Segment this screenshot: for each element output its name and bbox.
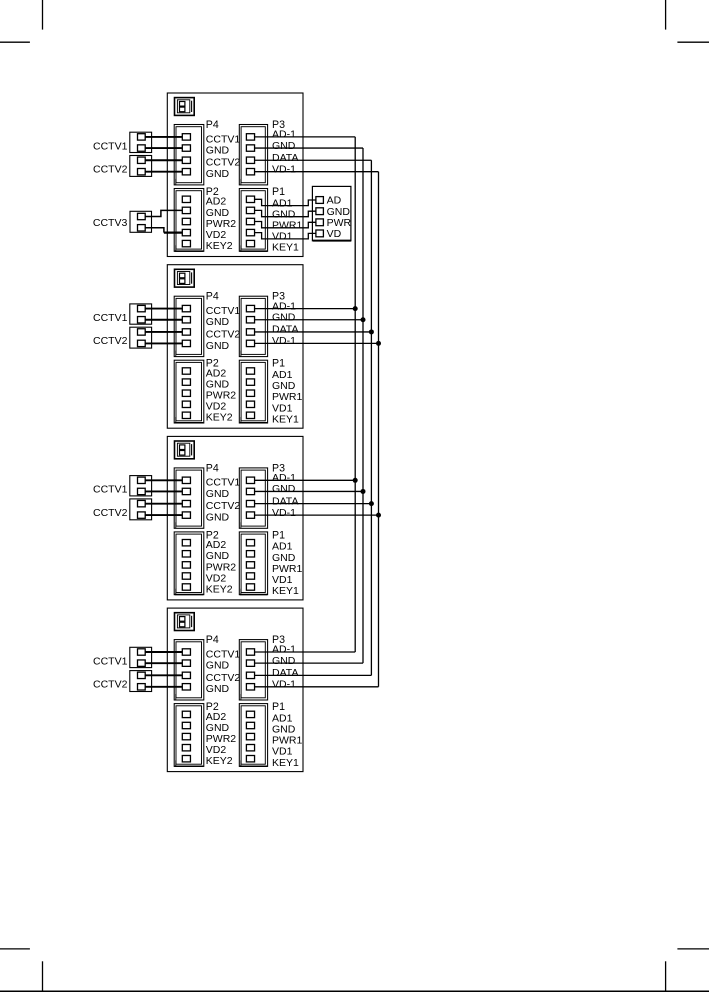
wire CCTV2 pin 1 to P4 (module 3) — [145, 503, 182, 505]
camera connector CCTV1 (module 1) — [130, 132, 152, 152]
svg-text:VD-1: VD-1 — [272, 679, 296, 691]
P1 pin label GND (module 1) — [272, 208, 296, 220]
svg-text:P1: P1 — [272, 529, 285, 541]
P4 pin label CCTV1 (module 1) — [206, 133, 241, 145]
svg-text:GND: GND — [206, 316, 230, 328]
crop mark top-left — [0, 0, 43, 42]
P1 pin 1 (module 1) — [246, 196, 254, 202]
svg-text:GND: GND — [206, 683, 230, 695]
P2 pin label AD2 (module 1) — [206, 196, 227, 208]
junction dot AD-1 bus (module 3) — [353, 478, 358, 483]
CCTV1 pin 1 (module 2) — [138, 305, 146, 311]
CCTV1 pin 1 (module 3) — [138, 477, 146, 483]
svg-text:CCTV1: CCTV1 — [93, 484, 128, 496]
P2 pin 3 (module 1) — [182, 218, 190, 224]
P2 pin 2 (module 3) — [182, 551, 190, 557]
wire P1 AD1 to interface connector — [255, 199, 316, 205]
connector P4 (module 2) — [174, 296, 204, 356]
P3 pin 1 (module 1) — [246, 134, 254, 140]
wire CCTV1 pin 1 to P4 (module 4) — [145, 651, 182, 653]
P4 pin label CCTV2 (module 3) — [206, 500, 241, 512]
P2 pin label PWR2 (module 4) — [206, 733, 236, 745]
camera connector CCTV1 (module 4) — [130, 647, 152, 667]
svg-text:GND: GND — [206, 488, 230, 500]
wire AD-1 from P3 pin 1 to bus (module 1) — [255, 136, 356, 138]
junction dot GND bus (module 2) — [361, 317, 366, 322]
svg-text:CCTV2: CCTV2 — [93, 679, 128, 691]
junction dot GND bus (module 3) — [361, 489, 366, 494]
wire CCTV1 pin 2 to P4 (module 4) — [145, 662, 182, 664]
svg-text:CCTV2: CCTV2 — [93, 507, 128, 519]
label P3 (module 1) — [272, 119, 285, 131]
label P2 (module 4) — [206, 701, 219, 713]
wire AD-1 from P3 pin 1 to bus (module 2) — [255, 308, 356, 310]
svg-text:GND: GND — [206, 660, 230, 672]
net label DATA on P3 wire (module 2) — [272, 324, 298, 336]
svg-text:P4: P4 — [206, 119, 219, 131]
label P4 (module 4) — [206, 634, 219, 646]
P2 pin label GND (module 1) — [206, 207, 230, 219]
camera connector CCTV2 (module 4) — [130, 671, 152, 692]
P1 pin label GND (module 2) — [272, 380, 296, 392]
CCTV3 pin 2 — [138, 225, 146, 231]
svg-text:AD: AD — [327, 195, 342, 207]
P4 pin 1 (module 4) — [182, 649, 190, 655]
P1 pin 1 (module 4) — [246, 711, 254, 717]
wire: vertical bus AD-1 — [354, 137, 356, 652]
P2 pin label AD2 (module 3) — [206, 539, 227, 551]
junction dot DATA bus (module 2) — [369, 329, 374, 334]
P4 pin 2 (module 3) — [182, 488, 190, 494]
module 4 connector icon — [175, 613, 195, 631]
P1 pin 5 (module 2) — [246, 412, 254, 418]
svg-text:KEY2: KEY2 — [206, 755, 233, 767]
P2 pin label VD2 (module 2) — [206, 401, 227, 413]
P4 pin 3 (module 3) — [182, 500, 190, 506]
P1 pin 3 (module 1) — [246, 218, 254, 224]
P1 pin label VD1 (module 3) — [272, 574, 293, 586]
wire CCTV1 pin 2 to P4 (module 2) — [145, 319, 182, 321]
P2 pin label PWR2 (module 2) — [206, 390, 236, 402]
P1 pin label AD1 (module 2) — [272, 369, 293, 381]
P4 pin label CCTV2 (module 1) — [206, 157, 241, 169]
CCTV2 pin 1 (module 3) — [138, 500, 146, 506]
P3 pin 4 (module 1) — [246, 169, 254, 175]
P3 pin 2 (module 2) — [246, 317, 254, 323]
svg-text:P1: P1 — [272, 186, 285, 198]
P4 pin 1 (module 1) — [182, 134, 190, 140]
P3 pin 2 (module 1) — [246, 145, 254, 151]
interface label VD — [327, 228, 342, 240]
wire: vertical bus VD-1 — [378, 172, 380, 687]
interface connector (AD/GND/PWR/VD) — [312, 186, 351, 240]
svg-text:DATA: DATA — [272, 324, 298, 336]
net label DATA on P3 wire (module 1) — [272, 152, 298, 164]
connector P2 (module 2) — [174, 360, 204, 423]
label P3 (module 3) — [272, 462, 285, 474]
svg-text:P4: P4 — [206, 634, 219, 646]
label P4 (module 3) — [206, 462, 219, 474]
P2 pin label GND (module 3) — [206, 550, 230, 562]
P1 pin label VD1 (module 4) — [272, 746, 293, 758]
wire P1 VD1 to interface connector — [255, 233, 316, 239]
P4 pin label GND (module 3) — [206, 512, 230, 524]
net label VD-1 on P3 wire (module 1) — [272, 163, 296, 175]
P2 pin 5 (module 4) — [182, 756, 190, 762]
label P4 (module 2) — [206, 291, 219, 303]
P3 pin 1 (module 2) — [246, 305, 254, 311]
label P1 (module 4) — [272, 701, 285, 713]
label CCTV2 (module 3) — [93, 507, 128, 519]
P1 pin label AD1 (module 3) — [272, 541, 293, 553]
P1 pin 1 (module 2) — [246, 368, 254, 374]
net label GND on P3 wire (module 4) — [272, 655, 296, 667]
svg-text:CCTV3: CCTV3 — [93, 217, 128, 229]
connector P4 (module 1) — [174, 125, 204, 185]
wire GND from P3 pin 2 to bus (module 4) — [255, 662, 363, 664]
P2 pin 4 (module 2) — [182, 401, 190, 407]
svg-text:GND: GND — [272, 483, 296, 495]
label CCTV1 (module 1) — [93, 140, 128, 152]
net label VD-1 on P3 wire (module 2) — [272, 335, 296, 347]
svg-text:VD-1: VD-1 — [272, 335, 296, 347]
P2 pin label KEY2 (module 3) — [206, 583, 233, 595]
P2 pin 3 (module 3) — [182, 562, 190, 568]
P4 pin 2 (module 1) — [182, 145, 190, 151]
wire CCTV2 pin 2 to P4 (module 3) — [145, 514, 182, 516]
CCTV1 pin 2 (module 2) — [138, 317, 146, 323]
P2 pin label PWR2 (module 1) — [206, 218, 236, 230]
junction dot DATA bus (module 3) — [369, 501, 374, 506]
svg-text:KEY1: KEY1 — [272, 757, 299, 769]
crop mark top-right — [666, 0, 709, 42]
page bottom edge line — [0, 990, 709, 992]
P4 pin label CCTV1 (module 2) — [206, 305, 241, 317]
P2 pin 1 (module 1) — [182, 196, 190, 202]
P1 pin label KEY1 (module 4) — [272, 757, 299, 769]
net label AD-1 on P3 wire (module 2) — [272, 300, 296, 312]
crop mark bottom-left — [0, 949, 43, 991]
connector P1 (module 3) — [239, 532, 267, 595]
svg-text:P1: P1 — [272, 701, 285, 713]
wire CCTV3 pin 1 to P2 GND — [145, 210, 182, 216]
P3 pin 3 (module 4) — [246, 672, 254, 678]
P1 pin label PWR1 (module 1) — [272, 220, 302, 232]
net label AD-1 on P3 wire (module 3) — [272, 472, 296, 484]
label P2 (module 3) — [206, 529, 219, 541]
P2 pin 3 (module 4) — [182, 733, 190, 739]
svg-text:CCTV1: CCTV1 — [93, 655, 128, 667]
connector P3 (module 1) — [239, 125, 267, 185]
label CCTV1 (module 2) — [93, 312, 128, 324]
P1 pin label PWR1 (module 4) — [272, 735, 302, 747]
wire DATA from P3 pin 3 to bus (module 2) — [255, 331, 372, 333]
camera connector CCTV2 (module 1) — [130, 156, 152, 177]
P3 pin 3 (module 3) — [246, 500, 254, 506]
svg-text:P4: P4 — [206, 462, 219, 474]
P3 pin 1 (module 3) — [246, 477, 254, 483]
svg-text:KEY1: KEY1 — [272, 585, 299, 597]
P1 pin label VD1 (module 1) — [272, 231, 293, 243]
P4 pin label GND (module 2) — [206, 316, 230, 328]
P1 pin label PWR1 (module 2) — [272, 391, 302, 403]
P2 pin 2 (module 1) — [182, 207, 190, 213]
label CCTV1 (module 4) — [93, 655, 128, 667]
P2 pin 2 (module 4) — [182, 722, 190, 728]
svg-text:GND: GND — [272, 311, 296, 323]
P2 pin label GND (module 4) — [206, 722, 230, 734]
P2 pin 4 (module 1) — [182, 229, 190, 235]
camera connector CCTV2 (module 2) — [130, 327, 152, 348]
P1 pin label AD1 (module 4) — [272, 712, 293, 724]
svg-text:DATA: DATA — [272, 495, 298, 507]
connector P4 (module 4) — [174, 640, 204, 700]
P2 pin 2 (module 2) — [182, 379, 190, 385]
P1 pin 4 (module 2) — [246, 401, 254, 407]
svg-text:KEY2: KEY2 — [206, 583, 233, 595]
wire CCTV3 pin 2 to P2 VD2 (thick leg) — [164, 232, 182, 234]
P4 pin 2 (module 2) — [182, 317, 190, 323]
svg-text:CCTV2: CCTV2 — [206, 328, 241, 340]
svg-text:CCTV1: CCTV1 — [93, 140, 128, 152]
wire CCTV2 pin 1 to P4 (module 1) — [145, 159, 182, 161]
monitor module 2 outline — [167, 265, 303, 429]
wire CCTV1 pin 1 to P4 (module 3) — [145, 479, 182, 481]
P2 pin 1 (module 2) — [182, 368, 190, 374]
net label AD-1 on P3 wire (module 4) — [272, 644, 296, 656]
P4 pin label CCTV2 (module 2) — [206, 328, 241, 340]
P1 pin label VD1 (module 2) — [272, 402, 293, 414]
wire CCTV2 pin 2 to P4 (module 4) — [145, 686, 182, 688]
label P1 (module 1) — [272, 186, 285, 198]
P4 pin label GND (module 4) — [206, 660, 230, 672]
P3 pin 4 (module 2) — [246, 340, 254, 346]
P1 pin label KEY1 (module 2) — [272, 413, 299, 425]
label P1 (module 3) — [272, 529, 285, 541]
svg-text:GND: GND — [206, 340, 230, 352]
label P3 (module 2) — [272, 291, 285, 303]
P4 pin 3 (module 2) — [182, 329, 190, 335]
P1 pin label KEY1 (module 3) — [272, 585, 299, 597]
label P3 (module 4) — [272, 634, 285, 646]
P3 pin 4 (module 4) — [246, 684, 254, 690]
wire: vertical bus GND — [362, 148, 364, 663]
net label GND on P3 wire (module 1) — [272, 140, 296, 152]
CCTV1 pin 1 (module 4) — [138, 649, 146, 655]
CCTV2 pin 2 (module 2) — [138, 340, 146, 346]
wire CCTV2 pin 2 to P4 (module 2) — [145, 342, 182, 344]
P2 pin label GND (module 2) — [206, 379, 230, 391]
connector P3 (module 4) — [239, 640, 267, 700]
svg-text:KEY1: KEY1 — [272, 413, 299, 425]
P4 pin 3 (module 4) — [182, 672, 190, 678]
module 2 connector icon — [175, 269, 195, 287]
P1 pin 5 (module 4) — [246, 756, 254, 762]
P4 pin 3 (module 1) — [182, 157, 190, 163]
P4 pin label GND (module 4) — [206, 683, 230, 695]
P1 pin label GND (module 4) — [272, 724, 296, 736]
svg-text:VD: VD — [327, 228, 342, 240]
P1 pin 5 (module 1) — [246, 240, 254, 246]
camera connector CCTV1 (module 2) — [130, 304, 152, 324]
camera connector CCTV1 (module 3) — [130, 476, 152, 496]
interface connector pin 1 — [316, 197, 324, 204]
wire CCTV1 pin 1 to P4 (module 1) — [145, 136, 182, 138]
wire CCTV2 pin 2 to P4 (module 1) — [145, 171, 182, 173]
junction dot VD-1 bus (module 2) — [376, 341, 381, 346]
P4 pin label CCTV1 (module 3) — [206, 477, 241, 489]
P2 pin 5 (module 2) — [182, 412, 190, 418]
P4 pin 1 (module 2) — [182, 305, 190, 311]
svg-text:CCTV2: CCTV2 — [206, 672, 241, 684]
CCTV2 pin 1 (module 2) — [138, 329, 146, 335]
svg-text:GND: GND — [206, 512, 230, 524]
wire GND from P3 pin 2 to bus (module 2) — [255, 319, 363, 321]
svg-text:KEY2: KEY2 — [206, 240, 233, 252]
P2 pin 1 (module 4) — [182, 711, 190, 717]
P2 pin label AD2 (module 2) — [206, 367, 227, 379]
wire CCTV2 pin 1 to P4 (module 2) — [145, 331, 182, 333]
wire GND from P3 pin 2 to bus (module 1) — [255, 147, 363, 149]
monitor module 4 outline — [167, 608, 303, 772]
CCTV2 pin 1 (module 1) — [138, 157, 146, 163]
label P2 (module 1) — [206, 186, 219, 198]
P1 pin 3 (module 2) — [246, 390, 254, 396]
P1 pin 5 (module 3) — [246, 584, 254, 590]
svg-text:GND: GND — [206, 168, 230, 180]
crop mark bottom-right — [666, 949, 709, 991]
wire DATA from P3 pin 3 to bus (module 1) — [255, 159, 372, 161]
connector P2 (module 3) — [174, 532, 204, 595]
CCTV2 pin 1 (module 4) — [138, 672, 146, 678]
net label VD-1 on P3 wire (module 4) — [272, 679, 296, 691]
P1 pin 3 (module 3) — [246, 562, 254, 568]
P4 pin label CCTV2 (module 4) — [206, 672, 241, 684]
P3 pin 2 (module 3) — [246, 488, 254, 494]
P1 pin 4 (module 4) — [246, 745, 254, 751]
wire CCTV3 pin 2 to P2 VD2 (jog) — [145, 228, 164, 233]
camera connector CCTV3 (module 1) — [130, 211, 152, 232]
svg-text:GND: GND — [272, 655, 296, 667]
P4 pin label CCTV1 (module 4) — [206, 648, 241, 660]
connector P1 (module 2) — [239, 360, 267, 423]
interface connector pin 2 — [316, 208, 324, 215]
wire CCTV1 pin 2 to P4 (module 1) — [145, 147, 182, 149]
label P1 (module 2) — [272, 358, 285, 370]
wire CCTV1 pin 1 to P4 (module 2) — [145, 308, 182, 310]
label CCTV2 (module 1) — [93, 164, 128, 176]
P2 pin 5 (module 3) — [182, 584, 190, 590]
wire AD-1 from P3 pin 1 to bus (module 4) — [255, 651, 356, 653]
P1 pin 2 (module 1) — [246, 207, 254, 213]
connector P3 (module 3) — [239, 468, 267, 528]
interface label PWR — [327, 217, 352, 229]
module 1 connector icon — [175, 98, 195, 116]
svg-text:KEY2: KEY2 — [206, 412, 233, 424]
interface label GND — [327, 206, 351, 218]
P4 pin 4 (module 1) — [182, 169, 190, 175]
P2 pin 1 (module 3) — [182, 540, 190, 546]
CCTV1 pin 2 (module 3) — [138, 488, 146, 494]
P2 pin label VD2 (module 4) — [206, 744, 227, 756]
wire DATA from P3 pin 3 to bus (module 3) — [255, 503, 372, 505]
P2 pin 5 (module 1) — [182, 240, 190, 246]
svg-text:CCTV2: CCTV2 — [93, 164, 128, 176]
label CCTV3 — [93, 217, 128, 229]
P1 pin 4 (module 3) — [246, 573, 254, 579]
interface label AD — [327, 195, 342, 207]
connector P3 (module 2) — [239, 296, 267, 356]
wire: vertical bus DATA — [370, 160, 372, 675]
CCTV2 pin 2 (module 4) — [138, 684, 146, 690]
CCTV2 pin 2 (module 1) — [138, 169, 146, 175]
P2 pin 4 (module 4) — [182, 745, 190, 751]
P1 pin 2 (module 4) — [246, 722, 254, 728]
svg-text:GND: GND — [206, 144, 230, 156]
P3 pin 3 (module 1) — [246, 157, 254, 163]
label CCTV2 (module 2) — [93, 335, 128, 347]
svg-text:CCTV2: CCTV2 — [206, 500, 241, 512]
P1 pin 1 (module 3) — [246, 540, 254, 546]
P2 pin label VD2 (module 1) — [206, 229, 227, 241]
wire VD-1 from P3 pin 4 to bus (module 3) — [255, 514, 379, 516]
P4 pin label GND (module 1) — [206, 144, 230, 156]
interface connector pin 4 — [316, 230, 324, 237]
P2 pin 3 (module 2) — [182, 390, 190, 396]
P4 pin label GND (module 2) — [206, 340, 230, 352]
svg-text:KEY1: KEY1 — [272, 242, 299, 254]
P2 pin label KEY2 (module 1) — [206, 240, 233, 252]
net label VD-1 on P3 wire (module 3) — [272, 507, 296, 519]
svg-text:DATA: DATA — [272, 152, 298, 164]
svg-text:DATA: DATA — [272, 667, 298, 679]
connector P1 (module 1) — [239, 189, 267, 252]
label P4 (module 1) — [206, 119, 219, 131]
interface connector pin 3 — [316, 219, 324, 226]
P1 pin 3 (module 4) — [246, 733, 254, 739]
net label GND on P3 wire (module 2) — [272, 311, 296, 323]
CCTV1 pin 2 (module 4) — [138, 660, 146, 666]
P1 pin 2 (module 2) — [246, 379, 254, 385]
connector P2 (module 1) — [174, 189, 204, 252]
svg-text:VD-1: VD-1 — [272, 507, 296, 519]
P4 pin 1 (module 3) — [182, 477, 190, 483]
P3 pin 1 (module 4) — [246, 649, 254, 655]
wire P1 PWR1 to interface connector — [255, 222, 316, 228]
net label DATA on P3 wire (module 3) — [272, 495, 298, 507]
P3 pin 2 (module 4) — [246, 660, 254, 666]
module 3 connector icon — [175, 441, 195, 459]
wire AD-1 from P3 pin 1 to bus (module 3) — [255, 479, 356, 481]
CCTV3 pin 1 — [138, 213, 146, 219]
P4 pin 2 (module 4) — [182, 660, 190, 666]
P4 pin 4 (module 4) — [182, 684, 190, 690]
svg-text:CCTV1: CCTV1 — [93, 312, 128, 324]
P1 pin 2 (module 3) — [246, 551, 254, 557]
P1 pin 4 (module 1) — [246, 229, 254, 235]
svg-text:VD-1: VD-1 — [272, 163, 296, 175]
P4 pin 4 (module 2) — [182, 340, 190, 346]
label CCTV2 (module 4) — [93, 679, 128, 691]
wire VD-1 from P3 pin 4 to bus (module 1) — [255, 171, 379, 173]
connector P1 (module 4) — [239, 704, 267, 767]
wire DATA from P3 pin 3 to bus (module 4) — [255, 674, 372, 676]
svg-text:CCTV2: CCTV2 — [93, 335, 128, 347]
P4 pin label GND (module 1) — [206, 168, 230, 180]
CCTV1 pin 2 (module 1) — [138, 145, 146, 151]
camera connector CCTV2 (module 3) — [130, 499, 152, 520]
P2 pin label PWR2 (module 3) — [206, 561, 236, 573]
